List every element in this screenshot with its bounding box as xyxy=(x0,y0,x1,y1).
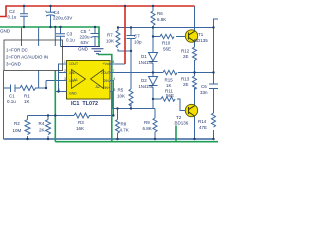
svg-text:2E: 2E xyxy=(183,82,189,87)
node A xyxy=(45,81,47,89)
wire R6 top xyxy=(152,6,154,11)
transistor T1 BD135 xyxy=(185,30,197,42)
svg-text:R3: R3 xyxy=(78,120,84,125)
svg-text:0.1u: 0.1u xyxy=(8,15,17,20)
svg-text:8: 8 xyxy=(113,60,115,64)
svg-text:1IN+: 1IN+ xyxy=(69,79,76,83)
wire R13 to T2 emitter xyxy=(194,88,196,106)
svg-text:R15: R15 xyxy=(165,78,174,83)
diode D1 xyxy=(149,53,158,62)
svg-text:C2: C2 xyxy=(9,9,15,14)
resistor R6 xyxy=(151,11,155,25)
svg-text:1N4148: 1N4148 xyxy=(139,84,154,89)
wire terminal 1 drop xyxy=(21,28,23,47)
resistor R1 xyxy=(20,86,36,91)
svg-text:R9: R9 xyxy=(144,120,150,125)
svg-text:220u: 220u xyxy=(80,35,91,40)
svg-text:0.1u: 0.1u xyxy=(66,38,75,43)
wire T1 collector xyxy=(194,6,196,32)
wire R3 row xyxy=(28,115,114,117)
svg-text:C7: C7 xyxy=(134,34,140,39)
svg-text:2IN+: 2IN+ xyxy=(103,86,110,90)
wire bias chain lower xyxy=(152,87,154,109)
pin numbers xyxy=(58,60,116,92)
wire R10 right to T1 base xyxy=(176,36,186,38)
wire terminal2 to input row xyxy=(38,71,40,89)
svg-text:10p: 10p xyxy=(134,40,142,45)
wire R3 right to pin6 xyxy=(110,81,113,116)
resistor R9 xyxy=(153,118,157,132)
wire R2 top xyxy=(27,116,29,120)
wire R9 top xyxy=(154,109,156,119)
pin stubs right xyxy=(110,64,116,92)
svg-text:R13: R13 xyxy=(181,77,190,82)
wire T1 emitter to R12 xyxy=(194,41,196,48)
wire R9 bottom xyxy=(154,132,156,139)
svg-text:56E: 56E xyxy=(166,93,174,98)
svg-text:R12: R12 xyxy=(181,49,190,54)
resistor R14 xyxy=(212,113,216,127)
svg-text:GND: GND xyxy=(78,47,89,52)
svg-text:D1: D1 xyxy=(141,54,147,59)
svg-text:1OUT: 1OUT xyxy=(69,62,78,66)
svg-text:C6: C6 xyxy=(201,84,207,89)
svg-text:R4: R4 xyxy=(39,121,45,126)
svg-text:R1: R1 xyxy=(24,94,30,99)
wire R6 bottom to node B1 xyxy=(152,26,154,37)
op-amp IC1 TL072 xyxy=(55,60,116,99)
wire R2 bottom xyxy=(27,136,29,139)
svg-text:10M: 10M xyxy=(13,128,22,133)
svg-text:R8: R8 xyxy=(121,122,127,127)
wire: blue signal wires xyxy=(4,6,219,139)
wire feedback right edge xyxy=(214,19,219,84)
green IC drop xyxy=(98,55,176,142)
capacitor C6 xyxy=(209,84,218,89)
svg-text:GND: GND xyxy=(0,29,11,34)
svg-text:1K: 1K xyxy=(24,99,30,104)
wire C7 top xyxy=(130,28,132,36)
wire R12 to output node xyxy=(195,60,214,76)
svg-text:T2: T2 xyxy=(176,115,182,120)
svg-text:R14: R14 xyxy=(198,119,207,124)
svg-text:16K: 16K xyxy=(76,126,84,131)
svg-text:C3: C3 xyxy=(67,32,73,37)
resistor R15 xyxy=(163,70,177,74)
wire bias chain upper xyxy=(152,37,154,53)
svg-text:2OUT: 2OUT xyxy=(101,71,110,75)
svg-text:T1: T1 xyxy=(198,32,204,37)
resistor R7 xyxy=(116,31,120,48)
resistor R8 xyxy=(116,120,120,134)
svg-text:R6: R6 xyxy=(157,11,163,16)
ground symbol near C5 xyxy=(61,47,104,54)
svg-text:+: + xyxy=(45,10,47,14)
svg-text:56E: 56E xyxy=(163,47,171,52)
transistor T2 BD136 xyxy=(185,104,197,116)
wire pin8 supply xyxy=(110,63,125,65)
svg-text:6: 6 xyxy=(114,77,116,81)
svg-text:+: + xyxy=(89,29,91,33)
op-amp A1 xyxy=(72,70,86,89)
wire pin7 to R15 xyxy=(110,72,163,74)
svg-text:BD135: BD135 xyxy=(194,38,208,43)
green terminal3 drop xyxy=(54,71,56,142)
svg-text:BD136: BD136 xyxy=(175,121,189,126)
wire R7 top xyxy=(117,28,119,31)
svg-text:3: 3 xyxy=(64,77,66,81)
wire feedback top row xyxy=(118,27,214,29)
svg-text:6.8K: 6.8K xyxy=(143,126,152,131)
wire input row C1-R1 xyxy=(4,87,11,89)
svg-text:R5: R5 xyxy=(118,88,124,93)
wire pin1 to pin2 feedback xyxy=(59,64,63,92)
svg-text:1K: 1K xyxy=(166,83,172,88)
capacitor C3 xyxy=(56,27,65,47)
svg-text:C1: C1 xyxy=(9,94,15,99)
capacitor C7 xyxy=(127,36,136,41)
wire R1 to node A xyxy=(35,87,46,89)
svg-text:6.8K: 6.8K xyxy=(157,17,166,22)
resistor R4 xyxy=(46,120,51,135)
svg-text:7: 7 xyxy=(113,69,115,73)
wire C6 to R14 xyxy=(213,89,215,114)
wire R7 bottom xyxy=(118,49,131,51)
svg-text:A2: A2 xyxy=(96,85,100,89)
resistor R3 xyxy=(74,113,90,118)
capacitor C4 (electrolytic) xyxy=(46,6,55,27)
svg-text:63V: 63V xyxy=(81,40,89,45)
wire R14 bottom xyxy=(213,130,215,139)
green ground rails xyxy=(0,27,218,142)
wire R11 left xyxy=(153,98,161,100)
wire bias net xyxy=(113,108,156,110)
wire node A to pin3 xyxy=(46,80,63,82)
svg-text:5: 5 xyxy=(114,88,116,92)
wire bottom rail xyxy=(4,138,214,140)
resistor R5 xyxy=(129,89,133,106)
note box xyxy=(4,40,63,71)
green top rail xyxy=(0,27,99,47)
wire terminal 2 drop xyxy=(38,28,40,47)
wire pin5 to bias net xyxy=(110,92,113,109)
svg-text:1N4148: 1N4148 xyxy=(139,60,154,65)
wire bias chain mid xyxy=(152,63,154,76)
IC pin labels xyxy=(69,62,110,96)
svg-text:4.7K: 4.7K xyxy=(120,128,129,133)
svg-text:1=FOR DC: 1=FOR DC xyxy=(6,48,28,53)
wire T2 collector to rail xyxy=(194,116,196,140)
wire C7 bottom to R5 xyxy=(130,40,132,89)
wire R15 right to output node xyxy=(178,72,194,74)
svg-text:D2: D2 xyxy=(141,78,147,83)
svg-text:33n: 33n xyxy=(200,90,208,95)
svg-text:2E: 2E xyxy=(183,54,189,59)
svg-text:10K: 10K xyxy=(106,39,114,44)
wire R8 bottom xyxy=(117,133,119,139)
wire R5 bottom xyxy=(130,104,132,109)
capacitor C5 (electrolytic) xyxy=(91,27,100,47)
svg-text:R10: R10 xyxy=(162,41,171,46)
diode D2 xyxy=(149,77,158,86)
svg-text:2IN-: 2IN- xyxy=(104,79,110,83)
svg-text:1: 1 xyxy=(64,60,66,64)
svg-text:R2: R2 xyxy=(14,121,20,126)
svg-text:220u,63V: 220u,63V xyxy=(53,16,72,21)
capacitor C2 xyxy=(20,6,28,27)
resistor R13 xyxy=(193,76,197,89)
svg-text:2: 2 xyxy=(64,69,66,73)
wire R4 top xyxy=(47,116,49,120)
svg-text:10K: 10K xyxy=(117,94,125,99)
green bottom rail xyxy=(55,141,218,143)
resistor R12 xyxy=(193,47,197,61)
svg-text:+Vcc: +Vcc xyxy=(102,62,110,66)
svg-text:47E: 47E xyxy=(199,125,207,130)
svg-text:IC1 TL072: IC1 TL072 xyxy=(71,101,98,107)
op-amp A2 xyxy=(91,70,104,89)
resistor R10 xyxy=(160,34,174,38)
wire R11 right to T2 base xyxy=(177,99,186,111)
resistor R2 xyxy=(25,120,30,135)
svg-text:0.1u: 0.1u xyxy=(7,99,16,104)
svg-text:2K: 2K xyxy=(39,128,45,133)
svg-text:R7: R7 xyxy=(107,33,113,38)
resistor R11 xyxy=(161,97,175,101)
wire R4 bottom xyxy=(47,136,49,139)
svg-text:1IN-: 1IN- xyxy=(69,71,75,75)
wire R8 top xyxy=(117,109,119,120)
red drop to IC pin8 xyxy=(124,6,126,64)
wire R10 left xyxy=(153,36,160,38)
pin stubs left xyxy=(55,64,66,92)
svg-text:GND: GND xyxy=(69,92,77,96)
svg-text:2=FOR AC/AUDIO IN: 2=FOR AC/AUDIO IN xyxy=(6,55,48,60)
wire terminal 3 drop xyxy=(54,28,56,47)
red supply rail xyxy=(0,6,195,64)
svg-text:3=GND: 3=GND xyxy=(6,62,21,67)
wire left vertical bus xyxy=(3,71,5,140)
capacitor C1 xyxy=(11,85,16,93)
svg-text:C4: C4 xyxy=(54,10,60,15)
svg-text:C5: C5 xyxy=(81,29,87,34)
